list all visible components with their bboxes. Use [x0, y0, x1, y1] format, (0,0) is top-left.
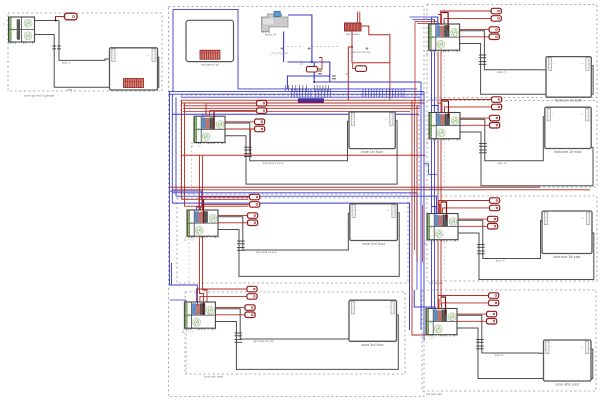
svg-text:pipe loop z1 sup: pipe loop z1 sup — [263, 162, 284, 165]
svg-text:out: out — [580, 62, 583, 65]
svg-text:pipe r2: pipe r2 — [498, 162, 507, 165]
svg-text:unit attic east: unit attic east — [426, 393, 443, 396]
svg-text:out: out — [580, 346, 583, 349]
svg-text:rad panel gf: rad panel gf — [201, 63, 219, 67]
svg-text:1 2 3: 1 2 3 — [197, 146, 203, 148]
svg-text:bedroom 2e bath: bedroom 2e bath — [555, 99, 582, 103]
svg-text:1 2 3: 1 2 3 — [187, 332, 193, 334]
svg-text:out: out — [147, 53, 150, 56]
svg-text:zone ground fl garage: zone ground fl garage — [24, 94, 55, 98]
svg-text:out: out — [386, 306, 389, 309]
svg-text:zone attic west: zone attic west — [204, 375, 224, 379]
svg-text:zone 2nd floor: zone 2nd floor — [362, 242, 386, 246]
svg-text:unit gf north: unit gf north — [429, 99, 444, 102]
svg-text:p1: p1 — [300, 63, 303, 66]
svg-text:out: out — [581, 217, 584, 220]
svg-text:pipe r3: pipe r3 — [496, 260, 505, 263]
svg-text:unit 3e east: unit 3e east — [429, 282, 443, 285]
svg-text:out: out — [384, 117, 387, 120]
svg-text:1 2 3: 1 2 3 — [432, 142, 438, 144]
svg-text:pipe_s: pipe_s — [62, 62, 71, 65]
svg-text:pipe loop z2 sup: pipe loop z2 sup — [256, 251, 277, 254]
svg-text:zone 3rd floor: zone 3rd floor — [362, 343, 385, 347]
svg-text:1 2 3: 1 2 3 — [190, 240, 196, 242]
svg-text:bedroom 2e east: bedroom 2e east — [555, 150, 582, 154]
svg-text:out: out — [386, 209, 389, 212]
svg-text:1 2 3: 1 2 3 — [432, 54, 438, 56]
svg-text:pipe r4: pipe r4 — [495, 354, 504, 357]
svg-text:1 2 3: 1 2 3 — [430, 243, 436, 245]
svg-text:1 2 3: 1 2 3 — [429, 338, 435, 340]
svg-text:bedroom 3e east: bedroom 3e east — [554, 255, 581, 259]
svg-text:boiler b1: boiler b1 — [265, 32, 277, 36]
svg-text:aux heater: aux heater — [346, 32, 360, 36]
svg-text:out: out — [580, 113, 583, 116]
svg-text:unit 2e east: unit 2e east — [429, 188, 443, 191]
svg-text:pipe_r: pipe_r — [67, 89, 75, 92]
svg-text:zone 1st floor: zone 1st floor — [361, 150, 384, 154]
svg-text:room attic east: room attic east — [555, 383, 579, 387]
svg-text:t_s t_r q_h on: t_s t_r q_h on — [270, 51, 288, 55]
svg-text:pipe loop z3 sup: pipe loop z3 sup — [253, 340, 274, 343]
svg-text:r: r — [4, 35, 5, 38]
svg-text:pipe r1: pipe r1 — [497, 71, 506, 74]
